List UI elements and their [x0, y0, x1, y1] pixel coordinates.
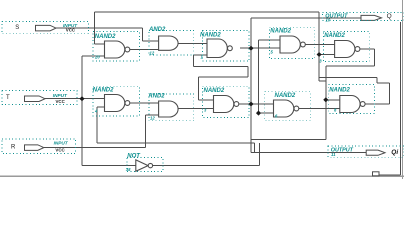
svg-text:VCC: VCC: [66, 28, 76, 33]
svg-text:NAND2: NAND2: [200, 32, 221, 38]
svg-text:S: S: [15, 25, 19, 31]
svg-text:Qi: Qi: [391, 149, 398, 156]
svg-text:NAND2: NAND2: [270, 29, 291, 35]
svg-text:R: R: [11, 145, 16, 151]
svg-text:Q: Q: [387, 13, 392, 20]
svg-text:20: 20: [94, 55, 100, 60]
svg-text:AND2: AND2: [148, 27, 166, 33]
svg-text:38: 38: [126, 167, 131, 172]
svg-text:NAND2: NAND2: [324, 33, 345, 39]
svg-text:T: T: [6, 95, 10, 101]
svg-text:NAND2: NAND2: [95, 34, 116, 40]
svg-text:VCC: VCC: [56, 99, 66, 104]
svg-text:INPUT: INPUT: [54, 140, 69, 145]
svg-text:12: 12: [150, 51, 155, 56]
svg-text:VCC: VCC: [55, 148, 65, 153]
svg-text:NAND2: NAND2: [204, 88, 225, 94]
svg-text:NOT: NOT: [127, 154, 141, 160]
svg-text:10: 10: [326, 18, 331, 23]
svg-text:11: 11: [331, 152, 336, 157]
svg-text:NAND2: NAND2: [275, 93, 296, 99]
svg-text:INPUT: INPUT: [53, 93, 68, 98]
svg-text:NAND2: NAND2: [329, 88, 350, 94]
svg-text:12: 12: [150, 116, 155, 121]
svg-text:NAND2: NAND2: [93, 88, 114, 94]
svg-text:AND2: AND2: [147, 93, 165, 99]
